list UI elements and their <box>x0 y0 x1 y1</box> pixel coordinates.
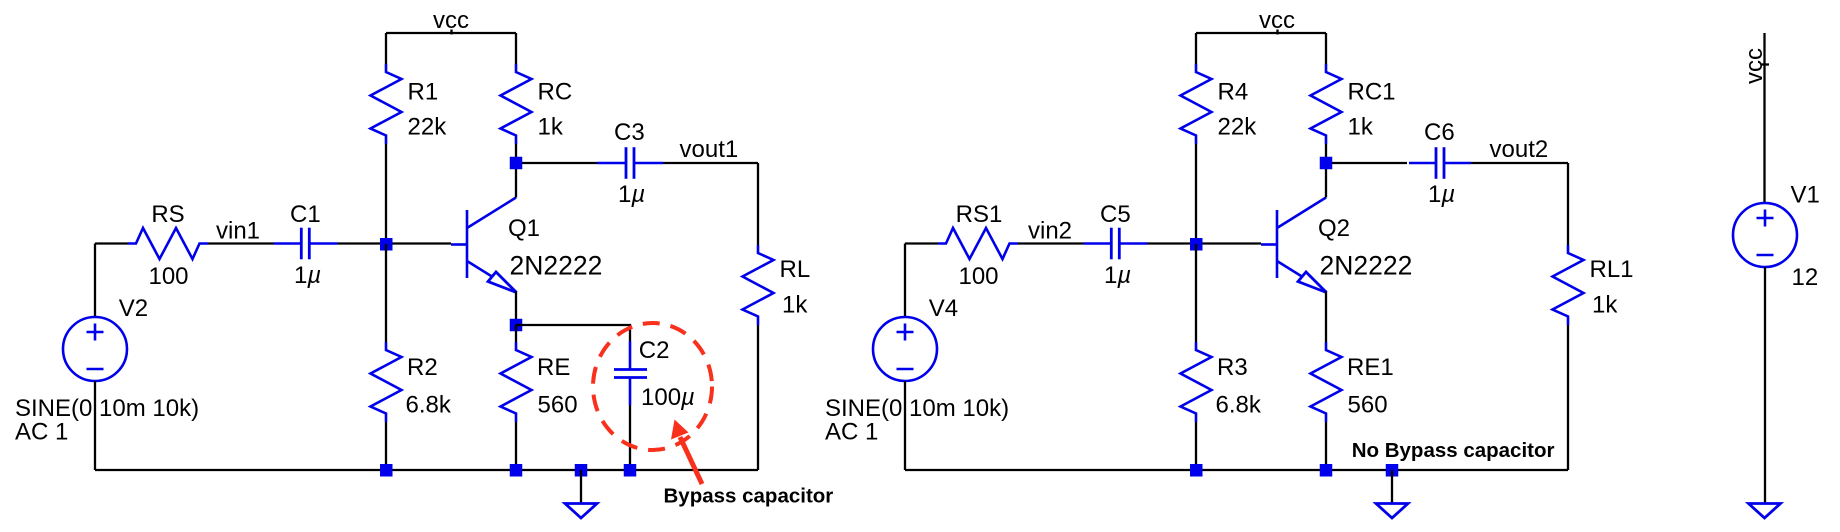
svg-text:RS1: RS1 <box>956 201 1003 228</box>
node rail at C2 <box>624 464 637 477</box>
wire C3 to vout1 corner <box>663 162 758 164</box>
wire collector to node <box>515 163 517 198</box>
wire RE bottom to rail <box>515 422 517 470</box>
svg-text:1µ: 1µ <box>294 262 321 289</box>
svg-text:vcc: vcc <box>1259 7 1295 34</box>
svg-text:Q1: Q1 <box>508 215 540 242</box>
ground (V1) <box>1749 504 1781 519</box>
wire collector to node (Q2) <box>1325 163 1327 198</box>
svg-text:V2: V2 <box>119 295 148 322</box>
svg-text:22k: 22k <box>1218 114 1258 141</box>
annotation red arrow <box>680 437 702 484</box>
svg-text:No Bypass capacitor: No Bypass capacitor <box>1352 439 1555 462</box>
wire corner to RS <box>95 242 128 244</box>
svg-text:V1: V1 <box>1791 182 1820 209</box>
svg-text:1k: 1k <box>782 292 808 319</box>
resistor RC1 <box>1311 64 1342 144</box>
svg-text:vcc: vcc <box>433 7 469 34</box>
wire RC1 bottom to collector node <box>1325 144 1327 163</box>
svg-text:RL1: RL1 <box>1590 256 1634 283</box>
resistor R4 <box>1181 64 1212 144</box>
wire V2 top lead up and to RS <box>94 244 96 318</box>
node junction C1/R1/R2/base <box>380 238 393 251</box>
wire RL bottom to rail <box>757 325 759 470</box>
wire R1 bottom to node <box>385 144 387 244</box>
wire vout2 corner down to RL1 <box>1567 163 1569 245</box>
annotation red dashed ellipse around C2 <box>593 323 712 450</box>
node vcc label tick (right) <box>1276 30 1278 35</box>
svg-text:Q2: Q2 <box>1318 215 1350 242</box>
svg-text:C3: C3 <box>614 119 645 146</box>
node emitter junction <box>510 319 523 332</box>
wire ground stub (right) <box>1391 470 1393 503</box>
svg-text:AC 1: AC 1 <box>15 419 68 446</box>
wire bottom rail <box>95 469 758 471</box>
resistor RS <box>128 228 208 259</box>
svg-text:1k: 1k <box>1592 292 1618 319</box>
resistor RS1 <box>938 228 1018 259</box>
svg-text:1k: 1k <box>538 114 564 141</box>
svg-text:2N2222: 2N2222 <box>510 251 603 281</box>
svg-text:RE: RE <box>537 354 570 381</box>
svg-text:R2: R2 <box>407 354 438 381</box>
transistor Q1 <box>451 198 517 293</box>
svg-text:100: 100 <box>148 263 188 290</box>
svg-text:100µ: 100µ <box>641 384 695 411</box>
wire top rail vcc (right) <box>1196 32 1326 34</box>
wire rail to RC top <box>515 33 517 64</box>
node rail at R3 <box>1190 464 1203 477</box>
wire R3 bottom to rail <box>1195 422 1197 470</box>
svg-text:vin1: vin1 <box>216 218 260 245</box>
wire collector node to C6 <box>1326 162 1407 164</box>
svg-text:R4: R4 <box>1218 79 1249 106</box>
capacitor C1 <box>274 228 338 260</box>
wire V4 top lead up and to RS1 <box>904 244 906 318</box>
svg-text:vin2: vin2 <box>1028 218 1072 245</box>
wire emitter down to emitter node (Q2) <box>1325 292 1327 326</box>
svg-text:C1: C1 <box>290 201 321 228</box>
ground (left circuit) <box>565 504 597 519</box>
wire top rail vcc <box>386 32 516 34</box>
svg-text:C2: C2 <box>639 337 670 364</box>
svg-text:560: 560 <box>1348 392 1388 419</box>
svg-text:RE1: RE1 <box>1347 354 1394 381</box>
wire RL1 bottom to rail <box>1567 325 1569 470</box>
wire emitter node to RE1 <box>1325 325 1327 342</box>
wire RS1 to C5 <box>1018 242 1084 244</box>
svg-text:R1: R1 <box>408 79 439 106</box>
svg-text:vout2: vout2 <box>1490 136 1549 163</box>
node collector junction (right) <box>1320 157 1333 170</box>
wire R3 top from node <box>1195 244 1197 342</box>
svg-text:22k: 22k <box>408 114 448 141</box>
wire V1 bottom to ground <box>1764 267 1766 503</box>
svg-text:1µ: 1µ <box>1428 181 1455 208</box>
wire corner to RS1 <box>905 242 938 244</box>
svg-text:AC 1: AC 1 <box>825 419 878 446</box>
svg-text:Bypass capacitor: Bypass capacitor <box>664 485 834 508</box>
wire C5 to base node and on to Q2 base <box>1148 242 1262 244</box>
svg-text:560: 560 <box>538 392 578 419</box>
wire emitter node to RE <box>515 325 517 342</box>
wire R2 top from node <box>385 244 387 342</box>
svg-text:RL: RL <box>780 256 811 283</box>
resistor RC <box>501 64 532 144</box>
node rail at RE <box>510 464 523 477</box>
svg-text:RC1: RC1 <box>1348 79 1396 106</box>
wire C2 bottom to rail <box>629 405 631 470</box>
svg-text:2N2222: 2N2222 <box>1320 251 1413 281</box>
svg-text:RC: RC <box>538 79 573 106</box>
svg-text:C5: C5 <box>1100 201 1131 228</box>
resistor R2 <box>371 342 402 422</box>
svg-text:V4: V4 <box>929 295 958 322</box>
capacitor C3 <box>597 147 663 179</box>
wire emitter down to emitter node <box>515 292 517 326</box>
wire RC bottom to collector node <box>515 144 517 163</box>
resistor R3 <box>1181 342 1212 422</box>
wire RS to C1 <box>208 242 274 244</box>
node rail at ground (right) <box>1386 464 1399 477</box>
resistor RL <box>743 245 774 325</box>
transistor Q2 <box>1261 198 1327 293</box>
wire C1 to base node and on to Q1 base <box>338 242 452 244</box>
resistor RE1 <box>1311 342 1342 422</box>
svg-text:1µ: 1µ <box>1104 262 1131 289</box>
wire vout1 corner down to RL <box>757 163 759 245</box>
wire C6 to vout2 corner <box>1471 162 1568 164</box>
wire V1 top <box>1763 33 1765 203</box>
wire R2 bottom to rail <box>385 422 387 470</box>
svg-text:1k: 1k <box>1348 114 1374 141</box>
wire ground stub <box>580 470 582 503</box>
wire bottom rail (right) <box>905 469 1568 471</box>
wire rail to RC1 top <box>1325 33 1327 64</box>
node rail at ground <box>575 464 588 477</box>
wire RE1 bottom to rail <box>1325 422 1327 470</box>
wire collector node to C3 <box>516 162 597 164</box>
node junction C5/R4/R3/base <box>1190 238 1203 251</box>
node rail at RE1 <box>1320 464 1333 477</box>
wire R4 bottom to node <box>1195 144 1197 244</box>
svg-text:6.8k: 6.8k <box>1216 392 1262 419</box>
resistor RL1 <box>1553 245 1584 325</box>
ground (right circuit) <box>1376 504 1408 519</box>
voltage source V1 <box>1733 203 1797 267</box>
capacitor C6 <box>1409 147 1471 179</box>
svg-text:6.8k: 6.8k <box>406 392 452 419</box>
node vcc label tick (V1) <box>1761 63 1769 65</box>
wire rail to R4 top <box>1195 33 1197 64</box>
wire rail to R1 top <box>385 33 387 64</box>
node vcc label tick <box>450 30 452 35</box>
svg-text:12: 12 <box>1792 264 1819 291</box>
svg-text:1µ: 1µ <box>618 181 645 208</box>
svg-text:100: 100 <box>958 263 998 290</box>
voltage source V2 <box>63 317 127 381</box>
node rail at R2 <box>380 464 393 477</box>
resistor RE <box>501 342 532 422</box>
svg-text:vout1: vout1 <box>680 136 739 163</box>
capacitor C2 <box>614 341 647 405</box>
wire V4 bottom to rail <box>904 381 906 470</box>
svg-text:RS: RS <box>151 201 184 228</box>
resistor R1 <box>371 64 402 144</box>
node collector junction <box>510 157 523 170</box>
wire V2 bottom to rail <box>94 381 96 470</box>
svg-text:C6: C6 <box>1424 119 1455 146</box>
wire emitter node to C2 branch <box>516 325 630 341</box>
svg-text:R3: R3 <box>1217 354 1248 381</box>
capacitor C5 <box>1084 228 1148 260</box>
voltage source V4 <box>873 317 937 381</box>
